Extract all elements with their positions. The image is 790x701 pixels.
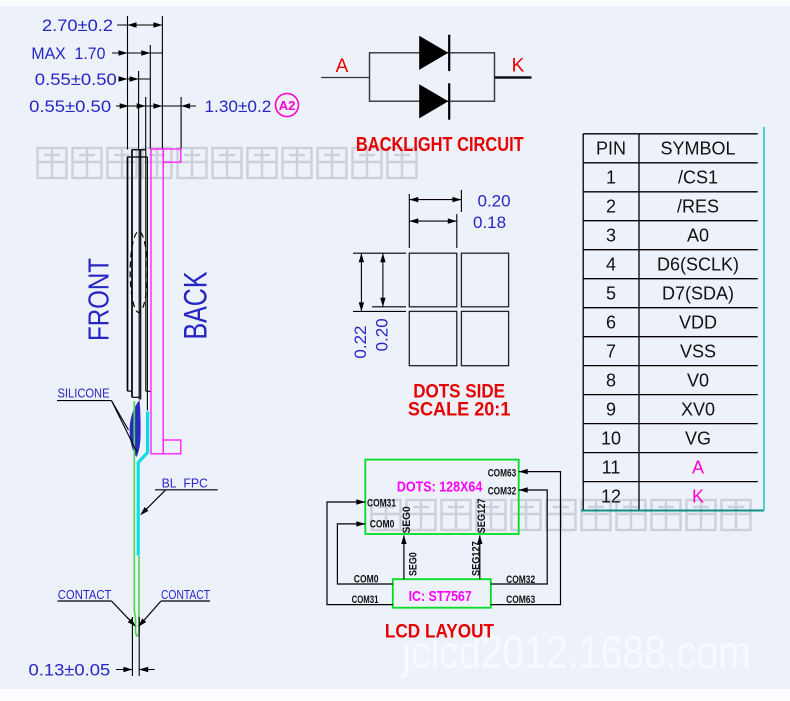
backlight outline (magenta) body: [151, 149, 163, 454]
watermark 深圳市金彩科技有限公司 row 1: [38, 148, 417, 178]
svg-text:0.13±0.05: 0.13±0.05: [29, 661, 111, 680]
svg-text:D7(SDA): D7(SDA): [662, 284, 734, 304]
bottom white band: [0, 689, 790, 701]
dashed ellipse callout on glass: [130, 232, 147, 313]
svg-text:V0: V0: [687, 371, 709, 391]
contact leader right: [139, 601, 161, 626]
diode D1: [419, 36, 448, 70]
svg-text:COM0: COM0: [370, 519, 395, 531]
svg-text:2: 2: [606, 197, 616, 217]
svg-text:SEG127: SEG127: [476, 499, 488, 534]
svg-text:3: 3: [606, 226, 616, 246]
svg-text:BACK: BACK: [178, 272, 214, 340]
glass right outer line: [146, 157, 148, 410]
svg-text:7: 7: [606, 342, 616, 362]
svg-text:SYMBOL: SYMBOL: [660, 139, 735, 159]
svg-text:COM63: COM63: [488, 467, 517, 479]
svg-text:11: 11: [602, 458, 621, 478]
extension line x=181.1: [180, 97, 182, 149]
extension line x=138.6: [138, 71, 140, 150]
silicone leader lines: [112, 401, 129, 430]
svg-text:FRONT: FRONT: [83, 258, 115, 341]
svg-text:COM0: COM0: [354, 573, 379, 585]
dot square bottom-right: [461, 311, 508, 365]
svg-text:0.20: 0.20: [478, 192, 511, 211]
svg-text:1.30±0.2: 1.30±0.2: [205, 97, 272, 116]
svg-text:0.55±0.50: 0.55±0.50: [29, 97, 111, 116]
svg-text:SILICONE: SILICONE: [58, 386, 110, 401]
svg-text:CONTACT: CONTACT: [161, 587, 210, 602]
svg-text:4: 4: [606, 255, 616, 275]
glass top edge lower: [127, 156, 147, 158]
svg-text:0.22: 0.22: [351, 326, 370, 359]
BL FPC leader: [142, 490, 166, 514]
svg-text:K: K: [692, 487, 704, 507]
dimension line 2.70: [117, 22, 162, 27]
glass bottom step 1: [128, 390, 133, 392]
svg-text:2.70±0.2: 2.70±0.2: [42, 16, 113, 35]
svg-text:BL FPC: BL FPC: [162, 476, 208, 491]
svg-text:0.20: 0.20: [373, 318, 392, 351]
dimension 0.18: [409, 213, 506, 232]
wire SEG0 arrow: [403, 536, 405, 580]
svg-text:MAX 1.70: MAX 1.70: [31, 44, 105, 63]
glass left outer line: [127, 157, 129, 391]
svg-text:COM63: COM63: [506, 594, 535, 606]
svg-text:BACKLIGHT CIRCUIT: BACKLIGHT CIRCUIT: [356, 134, 524, 156]
dimension line 0.55 second / 1.30: [116, 103, 196, 108]
BL FPC light green line: [134, 401, 139, 636]
dimension 0.20 vertical: [373, 253, 392, 351]
contact leader left: [112, 601, 135, 626]
svg-text:COM32: COM32: [488, 485, 517, 497]
svg-text:VDD: VDD: [679, 313, 717, 333]
svg-text:5: 5: [606, 284, 616, 304]
svg-text:DOTS: 128X64: DOTS: 128X64: [397, 478, 483, 495]
svg-text:12: 12: [601, 487, 621, 507]
svg-text:0.18: 0.18: [473, 213, 506, 232]
backlight circuit: left lead wire: [321, 77, 369, 79]
svg-text:VG: VG: [685, 429, 711, 449]
dot square top-right: [461, 253, 508, 307]
svg-text:COM31: COM31: [352, 594, 379, 606]
svg-text:VSS: VSS: [680, 342, 716, 362]
top white band: [0, 0, 790, 6]
svg-text:/RES: /RES: [677, 197, 719, 217]
svg-text:PIN: PIN: [596, 139, 626, 159]
svg-text:SCALE 20:1: SCALE 20:1: [408, 400, 511, 421]
dots side: extension lines top: [408, 194, 410, 248]
glass middle double line: [138, 150, 140, 400]
svg-text:A: A: [336, 56, 349, 77]
svg-text:A2: A2: [279, 98, 296, 113]
svg-text:COM32: COM32: [506, 574, 535, 586]
svg-text:0.55±0.50: 0.55±0.50: [35, 70, 117, 89]
pin table right border (cyan): [763, 127, 765, 511]
extension line x=145.7: [145, 97, 147, 150]
svg-text:1: 1: [606, 168, 616, 188]
silicone blob: [130, 400, 141, 457]
svg-text:6: 6: [606, 313, 616, 333]
svg-text:A0: A0: [687, 226, 709, 246]
glass bottom tick right: [146, 390, 151, 392]
wire COM31: [327, 502, 393, 605]
extension line x=150.3: [149, 45, 151, 149]
wire COM32: [491, 490, 547, 584]
glass stack side view: [127, 150, 151, 411]
svg-text:COM31: COM31: [367, 497, 396, 509]
svg-text:9: 9: [606, 400, 616, 420]
svg-text:SEG127: SEG127: [471, 541, 483, 576]
svg-text:SEG0: SEG0: [401, 506, 413, 533]
IC box: [393, 579, 491, 608]
0.13 extension lines: [131, 617, 133, 676]
diode D2: [419, 84, 448, 118]
svg-text:D6(SCLK): D6(SCLK): [657, 255, 739, 275]
svg-text:CONTACT: CONTACT: [58, 587, 112, 602]
BL FPC cyan line: [138, 412, 147, 556]
watermark 深圳市金彩科技有限公司 row 2: [372, 500, 751, 530]
dimension line MAX 1.70: [112, 50, 162, 55]
extension line x=127.5: [127, 16, 129, 150]
wire SEG127 arrow: [479, 536, 481, 580]
svg-text:A: A: [692, 458, 704, 478]
glass bottom step 2: [132, 396, 139, 398]
svg-text:LCD LAYOUT: LCD LAYOUT: [385, 622, 494, 643]
dot square bottom-left: [409, 311, 457, 365]
glass top edge upper: [132, 149, 146, 151]
svg-text:10: 10: [601, 429, 621, 449]
dimension 0.22 vertical: [351, 253, 370, 358]
wire COM63: [491, 472, 561, 605]
dot square top-left: [409, 253, 457, 307]
glass left inner line: [131, 150, 133, 398]
dimension 0.20 top: [409, 192, 510, 211]
pin table grid: [583, 134, 758, 511]
svg-text:IC: ST7567: IC: ST7567: [409, 588, 472, 605]
dots side: extension lines left: [353, 252, 406, 254]
svg-text:8: 8: [606, 371, 616, 391]
svg-text:/CS1: /CS1: [678, 168, 718, 188]
backlight top tab: [163, 149, 181, 162]
backlight circuit: loop rectangle: [370, 53, 495, 101]
svg-text:XV0: XV0: [681, 400, 715, 420]
balloon A2: [276, 94, 299, 117]
svg-text:K: K: [512, 56, 525, 77]
glass right inner line: [145, 150, 147, 392]
svg-text:SEG0: SEG0: [407, 552, 419, 576]
backlight bottom tab: [163, 440, 181, 454]
pin table bottom border (teal): [581, 510, 764, 512]
LCD layout: DOTS box: [365, 460, 518, 534]
extension line x=162.4: [161, 16, 163, 149]
wire COM0: [337, 524, 392, 584]
dimension line 0.55 first: [119, 76, 151, 81]
backlight circuit: right lead wire: [495, 76, 532, 78]
